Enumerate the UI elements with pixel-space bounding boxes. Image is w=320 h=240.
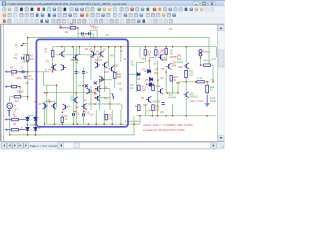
resistor R6 bbox=[61, 117, 64, 122]
transistor Q5b bbox=[102, 62, 107, 68]
toolbar row 2 icons bbox=[3, 14, 176, 17]
wire bbox=[79, 47, 81, 55]
toolbar row 1 icons bbox=[3, 8, 214, 11]
wire long B bbox=[75, 47, 77, 125]
wire ground rail bbox=[10, 134, 134, 136]
transistor Q17 bbox=[146, 96, 151, 102]
wire bbox=[76, 27, 78, 29]
wire bbox=[185, 47, 187, 63]
svg-text:1N: 1N bbox=[154, 64, 157, 66]
wire bbox=[125, 120, 140, 122]
wire bbox=[144, 104, 146, 116]
annotation line 2 bbox=[143, 128, 185, 132]
svg-text:10B: 10B bbox=[117, 77, 122, 79]
resistor R17 bbox=[152, 85, 155, 90]
wire bbox=[185, 78, 187, 92]
wire bbox=[114, 78, 116, 88]
wire bbox=[120, 110, 122, 124]
svg-text:D44: D44 bbox=[177, 59, 182, 61]
wire bbox=[100, 79, 112, 81]
wire bbox=[215, 47, 217, 57]
wire bbox=[99, 80, 101, 110]
input wire 2 bbox=[6, 86, 21, 88]
wire bbox=[151, 104, 153, 116]
svg-text:R20: R20 bbox=[155, 106, 160, 108]
wire bbox=[165, 70, 167, 93]
blue region box bbox=[36, 39, 128, 126]
capacitor C10 bbox=[83, 113, 85, 116]
net tap bbox=[21, 45, 23, 47]
svg-text:CP91: CP91 bbox=[177, 62, 183, 64]
svg-text:40 107: 40 107 bbox=[49, 69, 57, 71]
wire top rail +V bbox=[28, 37, 209, 39]
capacitor C3 bbox=[22, 55, 28, 62]
svg-text:D45H11: D45H11 bbox=[190, 97, 199, 99]
wire bbox=[92, 34, 94, 38]
svg-text:R10: R10 bbox=[105, 72, 110, 74]
svg-text:2N5551: 2N5551 bbox=[153, 101, 162, 103]
wire bbox=[121, 104, 123, 110]
wire bbox=[43, 72, 45, 85]
transistor Q9 bbox=[95, 95, 100, 101]
wire short rail bbox=[44, 84, 57, 86]
svg-text:0 µF: 0 µF bbox=[90, 26, 95, 28]
svg-text:mérve: THD = < 0,0009%, SID <0: mérve: THD = < 0,0009%, SID <0,25% bbox=[143, 123, 193, 127]
svg-text:a maximum 80 W-ig PCD <0,5%: a maximum 80 W-ig PCD <0,5% bbox=[143, 128, 185, 132]
capacitor Cmid bbox=[137, 87, 140, 89]
svg-text:100p: 100p bbox=[17, 78, 23, 80]
wire bbox=[157, 61, 159, 116]
wire bbox=[144, 55, 146, 62]
page tabs bbox=[30, 144, 66, 148]
svg-text:C15: C15 bbox=[130, 85, 135, 87]
svg-text:D44: D44 bbox=[172, 65, 177, 67]
vertical scrollbar bbox=[218, 25, 225, 142]
resistor R23 bbox=[206, 85, 209, 93]
wire output node bbox=[178, 81, 210, 83]
capacitor C18 bbox=[149, 83, 153, 87]
wire bbox=[172, 76, 174, 93]
resistor R9 bbox=[105, 114, 108, 120]
resistor R2 bbox=[26, 55, 29, 61]
diode D4 bbox=[148, 70, 151, 73]
transistor Q3b bbox=[98, 51, 103, 57]
scrollbar down button bbox=[218, 135, 224, 141]
transistor Q19 bbox=[184, 92, 189, 98]
transistor Q12 bbox=[63, 104, 68, 110]
svg-text:Ube = 5 mV: Ube = 5 mV bbox=[191, 101, 204, 103]
inductor L1 bbox=[197, 81, 205, 83]
diode D4b bbox=[34, 127, 37, 130]
resistor R19 bbox=[138, 105, 141, 111]
wire bbox=[96, 88, 111, 90]
wire bbox=[206, 93, 208, 95]
wire bbox=[111, 110, 113, 124]
green labels bbox=[15, 29, 217, 130]
transistor Q7 bbox=[99, 76, 104, 82]
wire output bottom rail bbox=[136, 115, 216, 117]
wire bbox=[95, 110, 97, 124]
minimize button bbox=[193, 2, 199, 6]
wire bbox=[212, 65, 214, 82]
svg-text:+ 50µF: + 50µF bbox=[91, 28, 99, 30]
title text bbox=[8, 2, 128, 6]
status bar bbox=[1, 142, 224, 150]
wire bbox=[120, 47, 122, 62]
resistor R7 bbox=[12, 118, 19, 121]
wire bbox=[52, 63, 54, 72]
svg-text:R15: R15 bbox=[174, 77, 179, 79]
svg-text:100R: 100R bbox=[210, 101, 216, 103]
wire bbox=[35, 116, 37, 135]
resistor R13 bbox=[155, 50, 158, 56]
diode D1 bbox=[26, 117, 29, 120]
node stub bbox=[24, 43, 28, 45]
svg-text:R21: R21 bbox=[176, 83, 181, 85]
svg-text:Power: Power bbox=[203, 51, 210, 54]
wire bbox=[109, 89, 111, 111]
svg-text:+V: +V bbox=[59, 25, 62, 27]
wire bbox=[44, 102, 46, 125]
capacitor C2 bbox=[22, 70, 24, 73]
transistor Q16 bbox=[184, 63, 189, 69]
wire supply caps row bbox=[78, 33, 93, 35]
svg-text:C2B: C2B bbox=[114, 65, 119, 67]
resistor R16 bbox=[138, 85, 141, 90]
resistor R3 bbox=[11, 85, 16, 88]
svg-text:out: out bbox=[211, 78, 215, 81]
svg-text:Q13: Q13 bbox=[161, 50, 166, 52]
svg-text:Q18: Q18 bbox=[169, 95, 174, 97]
resistor R5 bbox=[70, 27, 76, 30]
wire rail V2 corner drop bbox=[52, 47, 54, 63]
wire bbox=[172, 104, 174, 116]
svg-text:40 107: 40 107 bbox=[95, 60, 103, 62]
wire collector row bbox=[56, 54, 100, 56]
resistor R18 bbox=[165, 49, 168, 55]
capacitor C11 bbox=[81, 32, 83, 35]
app icon bbox=[2, 2, 6, 6]
toolbar background bbox=[1, 6, 224, 24]
wire bbox=[28, 115, 36, 117]
wire bbox=[108, 47, 110, 67]
resistor R20 bbox=[152, 105, 155, 111]
svg-text:C10: C10 bbox=[85, 113, 90, 115]
wire bbox=[133, 116, 135, 135]
resize grip bbox=[218, 143, 224, 149]
resistor R24 bbox=[204, 64, 211, 66]
transistor Q4 bbox=[73, 54, 78, 60]
wire bbox=[177, 82, 179, 93]
svg-text:D44H8: D44H8 bbox=[169, 98, 177, 100]
wire bbox=[144, 70, 148, 72]
wire bbox=[90, 54, 92, 80]
source V1 bbox=[7, 103, 13, 109]
wire bbox=[136, 63, 138, 93]
wire bbox=[83, 67, 85, 124]
svg-text:R24 4,7: R24 4,7 bbox=[204, 61, 213, 63]
resistor R1 bbox=[11, 71, 16, 74]
svg-text:Q17: Q17 bbox=[143, 105, 148, 107]
input arrow 3 bbox=[5, 118, 7, 120]
svg-text:47µ: 47µ bbox=[14, 58, 19, 60]
capacitor C4 bbox=[24, 76, 27, 78]
wire bbox=[19, 87, 21, 97]
wire mid cross bbox=[129, 73, 137, 75]
annotation line 1 bbox=[143, 123, 193, 127]
svg-text:1N4: 1N4 bbox=[154, 73, 159, 75]
svg-text:L1 2µ: L1 2µ bbox=[197, 78, 203, 80]
wire bbox=[165, 47, 167, 61]
resistor R15 bbox=[170, 76, 173, 82]
resistor R8 bbox=[12, 128, 19, 131]
wire bbox=[96, 97, 111, 99]
transistor Q18 bbox=[158, 88, 163, 94]
diode D5 bbox=[150, 78, 153, 81]
svg-text:1N: 1N bbox=[75, 63, 78, 65]
toolbar row 3 icons bbox=[3, 20, 173, 23]
wire bbox=[114, 47, 116, 73]
window frame bbox=[0, 0, 225, 150]
svg-text:C10: C10 bbox=[90, 115, 95, 117]
wire bbox=[97, 56, 99, 63]
wire bottom inner rail bbox=[47, 123, 140, 125]
svg-text:47µ: 47µ bbox=[82, 36, 87, 38]
wire long A bbox=[73, 47, 75, 125]
transistor Q10 bbox=[43, 103, 48, 109]
supply arrow bbox=[59, 26, 70, 29]
svg-text:47µF: 47µF bbox=[210, 98, 216, 100]
page navigation buttons bbox=[2, 143, 29, 148]
wire bbox=[155, 47, 157, 50]
wire bbox=[150, 57, 155, 59]
svg-text:NP: NP bbox=[75, 60, 79, 62]
cross mark 2 bbox=[94, 81, 97, 84]
wire bbox=[90, 86, 92, 110]
capacitor C15 bbox=[162, 103, 165, 105]
svg-text:(2): (2) bbox=[120, 89, 123, 91]
wire bbox=[103, 110, 105, 124]
wire bbox=[166, 92, 178, 94]
wire left column bbox=[27, 38, 29, 101]
transistor Q11 bbox=[51, 103, 56, 109]
transistor Q6 bbox=[109, 66, 114, 72]
capacitor C12 bbox=[88, 32, 90, 35]
input arrow 1 bbox=[5, 71, 7, 73]
curly brace bbox=[112, 94, 114, 100]
wire bbox=[56, 85, 58, 107]
cross mark bbox=[85, 84, 88, 87]
wire bbox=[200, 56, 202, 65]
wire mid rail bbox=[47, 92, 96, 94]
wire bbox=[9, 109, 11, 135]
svg-text:R22: R22 bbox=[189, 71, 194, 73]
wire bbox=[149, 58, 151, 71]
wire bbox=[139, 47, 141, 58]
capacitor C8 bbox=[7, 111, 10, 117]
green frame bbox=[91, 30, 98, 37]
wire bbox=[45, 101, 55, 103]
wire bbox=[61, 115, 63, 117]
svg-text:C:\MC10\DATA\Petrov\HeadAMP\KE: C:\MC10\DATA\Petrov\HeadAMP\KEVP.JD3_Hac… bbox=[8, 2, 128, 6]
transistor Q3 bbox=[91, 51, 96, 57]
wire R24 row bbox=[201, 64, 214, 66]
title bar bbox=[1, 1, 224, 6]
input wire 1 bbox=[6, 71, 28, 73]
input arrow 4 bbox=[5, 129, 7, 131]
wire bbox=[94, 47, 96, 52]
svg-text:D4C: D4C bbox=[177, 56, 182, 58]
wire bbox=[137, 62, 145, 64]
transistor Q1 bbox=[51, 64, 56, 70]
transistor Q5 bbox=[95, 62, 100, 68]
capacitor C6 bbox=[73, 113, 75, 116]
resistor Rx bbox=[51, 50, 54, 57]
svg-text:(1): (1) bbox=[70, 97, 73, 99]
wire input node row bbox=[28, 71, 50, 73]
wire bbox=[46, 85, 48, 124]
wire bbox=[144, 47, 146, 50]
diode D2 bbox=[34, 117, 37, 120]
wire bbox=[104, 67, 106, 92]
input arrow 2 bbox=[5, 85, 7, 87]
diode pair bbox=[199, 50, 202, 57]
wire bbox=[139, 116, 141, 124]
wire bbox=[64, 47, 66, 52]
wire bbox=[61, 122, 63, 124]
wire source top bbox=[10, 96, 28, 98]
wire bbox=[206, 82, 208, 85]
wire bbox=[155, 55, 157, 58]
transistor Q8b bbox=[86, 88, 91, 94]
wire bbox=[54, 102, 56, 125]
canvas area bbox=[1, 24, 224, 141]
scrollbar thumb bbox=[218, 50, 224, 67]
transistor Q0 bbox=[59, 51, 64, 57]
resistor R14 bbox=[114, 72, 117, 78]
transistor Q14 bbox=[166, 63, 171, 69]
transistor Q20 bbox=[72, 97, 77, 103]
wire bbox=[100, 47, 102, 52]
transistor Q13 bbox=[158, 54, 163, 60]
wire bbox=[161, 57, 167, 59]
wire bbox=[88, 103, 121, 105]
capacitor C13 bbox=[75, 67, 78, 73]
svg-text:0R2: 0R2 bbox=[179, 67, 184, 69]
svg-text:R23: R23 bbox=[210, 87, 215, 89]
wire bbox=[27, 116, 29, 135]
input wire 3 bbox=[6, 119, 26, 121]
transistor Q15 bbox=[81, 103, 86, 109]
diode D8 bbox=[137, 73, 140, 76]
wire rail V2 bbox=[53, 46, 217, 48]
diode D3 bbox=[26, 127, 29, 130]
close button bbox=[209, 2, 215, 6]
svg-text:2N55: 2N55 bbox=[162, 60, 168, 62]
svg-text:IN: IN bbox=[15, 45, 18, 47]
svg-text:400µF: 400µF bbox=[17, 92, 24, 94]
capacitor C14 bbox=[82, 71, 85, 73]
resistor R22 bbox=[185, 70, 188, 77]
transistor Q2 bbox=[61, 64, 66, 70]
transistor Q8 bbox=[95, 86, 100, 92]
wire bbox=[185, 98, 187, 116]
svg-text:C16: C16 bbox=[117, 84, 122, 86]
svg-text:Page 1: Page 1 bbox=[30, 144, 39, 148]
maximize button bbox=[201, 2, 207, 6]
svg-text:0,22: 0,22 bbox=[189, 75, 194, 77]
horizontal scrollbar bbox=[58, 143, 217, 149]
resistor R0 bbox=[14, 95, 21, 98]
wire bbox=[185, 69, 187, 72]
red labels bbox=[11, 24, 210, 129]
svg-text:Q19: Q19 bbox=[190, 93, 195, 95]
input wire 4 bbox=[6, 129, 26, 131]
wire supply drop bbox=[77, 28, 79, 38]
probe arrow bbox=[205, 95, 210, 107]
svg-text:1N41: 1N41 bbox=[30, 125, 36, 127]
wire bbox=[9, 97, 11, 103]
svg-text:Q13: Q13 bbox=[164, 53, 169, 55]
wire bbox=[208, 38, 210, 66]
resistor R12 bbox=[144, 50, 147, 56]
scrollbar up button bbox=[218, 25, 224, 31]
